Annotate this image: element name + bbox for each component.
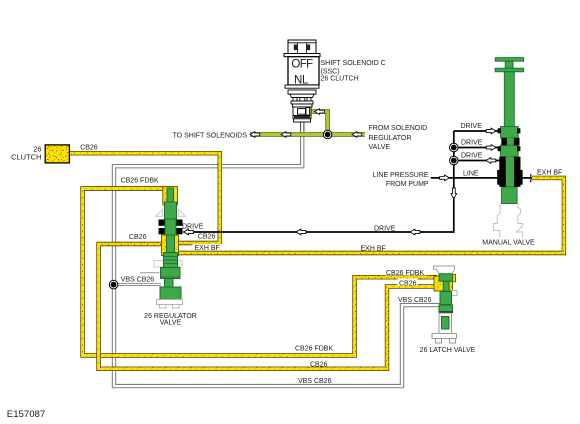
svg-text:(SSC): (SSC) bbox=[321, 69, 340, 76]
svg-text:REGULATOR: REGULATOR bbox=[369, 135, 412, 142]
wire CB26 from 26 clutch box bbox=[69, 153, 219, 243]
valve spring outline bbox=[494, 204, 523, 238]
svg-text:OFF: OFF bbox=[291, 58, 313, 70]
svg-text:CB26 FDBK: CB26 FDBK bbox=[121, 178, 159, 185]
flow arrow drive line left bbox=[296, 229, 306, 235]
svg-text:VBS CB26: VBS CB26 bbox=[121, 277, 155, 284]
wire DRIVE black: bottom run + manual valve vertical bbox=[184, 131, 454, 232]
valve green stack bbox=[439, 274, 453, 313]
flow arrow into 26 regulator valve drive port bbox=[184, 229, 194, 235]
svg-text:DRIVE: DRIVE bbox=[461, 140, 483, 147]
junction dot drive third bbox=[450, 156, 459, 165]
flow arrow from solenoid regulator valve bbox=[352, 132, 362, 138]
flow arrow drive line right bbox=[410, 229, 420, 235]
valve bottom cap bbox=[157, 300, 183, 305]
svg-text:EXH BF: EXH BF bbox=[195, 245, 220, 252]
valve green stack bbox=[160, 188, 181, 300]
svg-text:DRIVE: DRIVE bbox=[182, 224, 204, 231]
flow arrow solenoid outlet bbox=[315, 109, 325, 115]
svg-text:CB26 FDBK: CB26 FDBK bbox=[386, 270, 424, 277]
valve base bbox=[432, 334, 457, 339]
tick crossing on EXH BF bbox=[530, 174, 532, 182]
svg-text:VALVE: VALVE bbox=[369, 144, 391, 151]
flow arrow to shift solenoids bbox=[250, 132, 260, 138]
junction dot drive mid bbox=[450, 143, 459, 152]
flow arrow on solenoid feed line bbox=[281, 132, 291, 138]
26 latch valve bbox=[432, 266, 457, 343]
flow arrow down exhaust bbox=[451, 188, 457, 199]
svg-text:CB26: CB26 bbox=[129, 234, 147, 241]
svg-text:CLUTCH: CLUTCH bbox=[11, 152, 41, 161]
svg-text:VBS CB26: VBS CB26 bbox=[398, 297, 432, 304]
svg-text:CB26: CB26 bbox=[198, 234, 216, 241]
solenoid SSC assembly bbox=[284, 40, 320, 122]
valve lands black bbox=[159, 220, 183, 235]
svg-text:VBS CB26: VBS CB26 bbox=[298, 378, 332, 385]
wire VBS CB26 gray tube: solenoid down, left, down, bottom right, up to latch valve bbox=[114, 122, 440, 386]
valve lands black bbox=[497, 128, 522, 187]
wire EXH BF black stub bbox=[520, 177, 533, 179]
svg-text:EXH BF: EXH BF bbox=[361, 245, 386, 252]
wire CB26 FDBK loop bbox=[83, 189, 437, 356]
wire elbow from solenoid valve bbox=[310, 112, 328, 135]
solenoid stack bbox=[285, 85, 319, 122]
wire CB26 lower loop bbox=[99, 244, 437, 369]
valve ridge lines bbox=[161, 257, 181, 278]
flow arrow manual valve drive port 2 bbox=[486, 145, 496, 151]
wire DRIVE third port bbox=[454, 160, 500, 162]
26 regulator valve bbox=[154, 187, 186, 309]
wire DRIVE mid port bbox=[454, 147, 500, 149]
port line at 26 regulator valve bbox=[140, 272, 160, 274]
wire VBS CB26 branch to 26 regulator valve bbox=[115, 283, 161, 286]
valve body sections bbox=[501, 127, 519, 204]
svg-text:FROM PUMP: FROM PUMP bbox=[386, 181, 429, 188]
svg-text:LINE PRESSURE: LINE PRESSURE bbox=[373, 172, 429, 179]
valve T handle bbox=[495, 58, 524, 127]
valve funnel top bbox=[434, 266, 455, 274]
wire solenoid outlet tube dark segment bbox=[300, 122, 304, 131]
solenoid body bbox=[288, 57, 319, 85]
26 clutch box bbox=[45, 145, 69, 163]
svg-text:EXH BF: EXH BF bbox=[537, 170, 562, 177]
svg-text:CB26 FDBK: CB26 FDBK bbox=[295, 346, 333, 353]
svg-text:DRIVE: DRIVE bbox=[374, 226, 396, 233]
junction dot VBS CB26 bbox=[109, 280, 118, 289]
valve white wings bbox=[154, 210, 186, 268]
svg-text:TO SHIFT SOLENOIDS: TO SHIFT SOLENOIDS bbox=[173, 133, 248, 140]
valve white wing bbox=[452, 291, 458, 296]
flow arrow line pressure into manual valve bbox=[440, 175, 450, 181]
svg-text:DRIVE: DRIVE bbox=[461, 153, 483, 160]
svg-text:DRIVE: DRIVE bbox=[461, 123, 483, 130]
svg-text:E157087: E157087 bbox=[7, 409, 45, 420]
wire EXH BF bbox=[166, 178, 564, 253]
wire LINE from pump bbox=[431, 177, 506, 179]
svg-text:SHIFT SOLENOID C: SHIFT SOLENOID C bbox=[321, 60, 386, 67]
wire yellow-green solenoid feed horizontal bbox=[250, 112, 365, 135]
valve cylinder bbox=[439, 313, 452, 334]
svg-text:LINE: LINE bbox=[463, 171, 479, 178]
svg-text:MANUAL VALVE: MANUAL VALVE bbox=[482, 240, 535, 247]
svg-text:26 CLUTCH: 26 CLUTCH bbox=[321, 76, 359, 83]
svg-text:26 LATCH VALVE: 26 LATCH VALVE bbox=[420, 347, 476, 354]
svg-text:CB26: CB26 bbox=[80, 145, 98, 152]
flow arrow manual valve drive port 3 bbox=[486, 158, 496, 164]
valve yellow channel bbox=[163, 187, 178, 206]
svg-text:FROM SOLENOID: FROM SOLENOID bbox=[369, 125, 428, 132]
svg-text:CB26: CB26 bbox=[310, 362, 328, 369]
svg-text:CB26: CB26 bbox=[399, 280, 417, 287]
label backgrounds bbox=[120, 244, 437, 303]
svg-text:NL: NL bbox=[294, 74, 309, 86]
manual valve bbox=[494, 58, 524, 238]
junction dot solenoid line bbox=[323, 130, 332, 139]
solenoid connector bbox=[288, 40, 316, 54]
valve yellow channel bbox=[434, 276, 453, 291]
flow arrow manual valve drive port 1 bbox=[486, 128, 496, 134]
svg-text:VALVE: VALVE bbox=[160, 320, 182, 327]
wire DRIVE top port bbox=[454, 130, 500, 132]
